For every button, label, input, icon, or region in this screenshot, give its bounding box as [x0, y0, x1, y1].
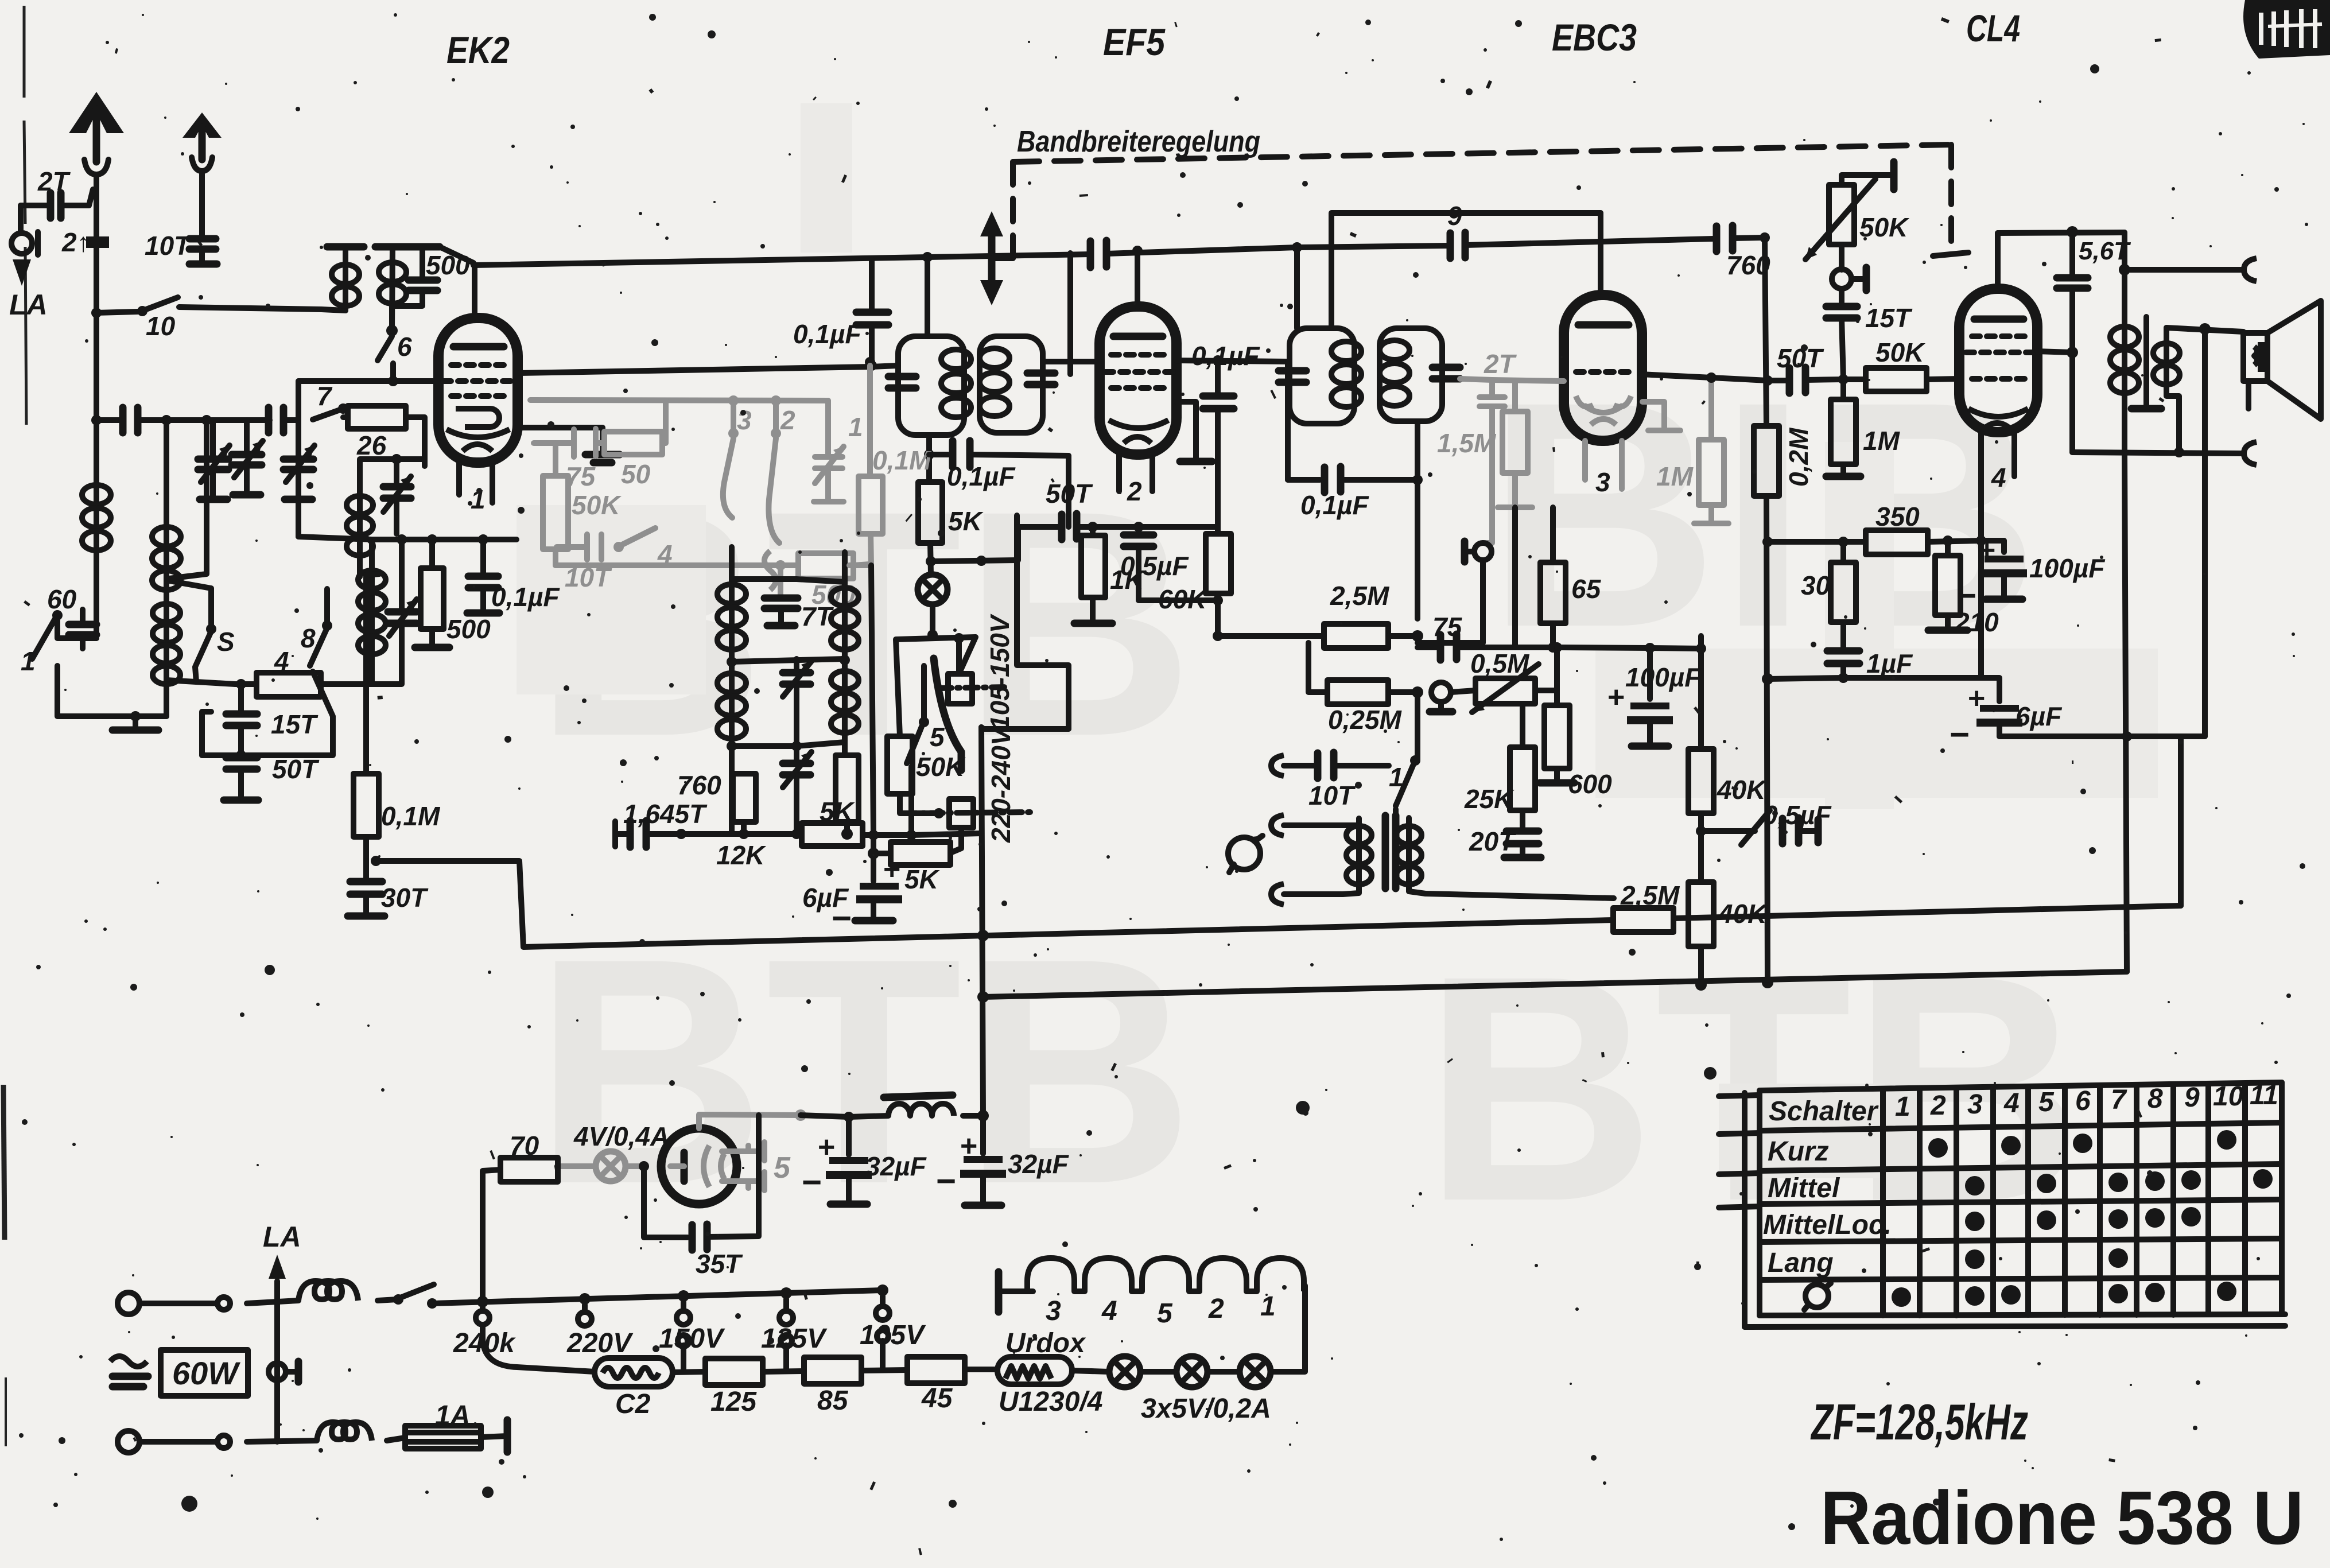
- resistor 70: [483, 1131, 558, 1302]
- svg-text:40K: 40K: [1718, 899, 1768, 929]
- AF wire to 2,5M bottom: [1426, 894, 1614, 898]
- table header scan shading: [1719, 1084, 1885, 1178]
- svg-text:9: 9: [2184, 1082, 2200, 1113]
- svg-text:500: 500: [446, 614, 491, 644]
- riser from bus A to 6uF line: [2178, 736, 2184, 906]
- capacitor 50T (to EBC3 out): [1768, 343, 1849, 393]
- resistor 5K (mains): [868, 842, 950, 894]
- capacitor 0,1uF left: [467, 534, 560, 613]
- svg-text:5: 5: [774, 1151, 791, 1185]
- EF5 plate wire to IF2: [1176, 360, 1290, 362]
- dots Lang: [1965, 1248, 2128, 1269]
- wire AVC row y1129: [1557, 647, 1701, 649]
- electrolytic 6uF (bias): [1843, 678, 2063, 754]
- gray resistor 50K vertical: [543, 443, 622, 565]
- svg-text:2,5M: 2,5M: [1330, 581, 1390, 611]
- svg-text:50T: 50T: [272, 754, 320, 784]
- variable capacitor 1: [198, 420, 230, 499]
- EF5 top lead: [1135, 251, 1140, 306]
- svg-text:60: 60: [47, 584, 77, 614]
- wire 15T/50T node to osc loop: [202, 672, 333, 755]
- mains symbol + 60W box: [110, 1350, 248, 1396]
- svg-text:125: 125: [710, 1387, 757, 1417]
- capacitor 10T to ground: [145, 231, 217, 264]
- svg-text:−: −: [1949, 715, 1969, 754]
- gray switch 3: [723, 401, 752, 518]
- speaker frame return: [2202, 329, 2208, 736]
- AF transformer terminals: [1271, 815, 1359, 905]
- resistor 5K (osc): [802, 797, 863, 846]
- svg-text:8: 8: [2148, 1084, 2163, 1114]
- resistor 350: [1762, 502, 1981, 554]
- svg-text:0,1µF: 0,1µF: [1300, 490, 1369, 520]
- Urdox U1230/4: [997, 1328, 1109, 1417]
- coil L1 antenna: [82, 420, 111, 638]
- dots gramophone row: [1892, 1282, 2236, 1307]
- gray resistor 500: [798, 553, 870, 610]
- svg-text:50K: 50K: [1875, 337, 1925, 367]
- wire coil top to T1: [440, 247, 473, 263]
- svg-text:350: 350: [1875, 502, 1920, 531]
- svg-text:1: 1: [1895, 1092, 1910, 1122]
- IF2 right-top riser to EBC3 anode line: [1331, 213, 1601, 328]
- svg-text:4: 4: [1101, 1296, 1117, 1326]
- svg-text:S: S: [217, 627, 235, 657]
- resistor 40K upper: [1688, 636, 1767, 836]
- svg-text:65: 65: [1571, 574, 1602, 604]
- vertical branch x1865: [1067, 253, 1073, 374]
- svg-text:50K: 50K: [572, 490, 622, 520]
- svg-text:1: 1: [21, 646, 36, 676]
- light scan patches: [517, 103, 2158, 809]
- svg-text:Urdox: Urdox: [1005, 1328, 1086, 1359]
- svg-text:32µF: 32µF: [865, 1151, 927, 1181]
- svg-text:+: +: [883, 853, 900, 886]
- svg-text:500: 500: [426, 250, 470, 280]
- resistor 60K: [1158, 534, 1324, 641]
- bus B: [983, 972, 2127, 997]
- svg-text:−: −: [831, 899, 851, 937]
- wire antenna column down to tuning bus: [94, 313, 99, 420]
- svg-text:15T: 15T: [271, 709, 319, 739]
- resistor 40K lower: [1688, 831, 1768, 991]
- osc mid link: [732, 659, 845, 662]
- bottom mains lead with coil and fuse 1A: [247, 1400, 507, 1452]
- svg-text:7: 7: [2111, 1085, 2127, 1115]
- svg-text:Lang: Lang: [1768, 1248, 1834, 1278]
- svg-text:8: 8: [301, 623, 316, 653]
- EF5 grid wire from IF1: [1043, 359, 1100, 364]
- svg-text:85: 85: [817, 1385, 849, 1416]
- resistor 45: [907, 1357, 997, 1414]
- grid wire EK2: [298, 378, 437, 384]
- selector to 5K: [950, 828, 961, 853]
- EK2 cathode ground: [518, 428, 620, 463]
- electrolytic 6uF: [802, 853, 902, 937]
- gray wire grid row: [530, 400, 828, 401]
- svg-text:5K: 5K: [820, 797, 855, 826]
- svg-text:105-150V: 105-150V: [985, 614, 1015, 730]
- svg-text:220V: 220V: [566, 1328, 634, 1359]
- svg-text:1: 1: [1389, 762, 1404, 792]
- CL4 cathode node: [1976, 535, 1986, 546]
- taps: [453, 1296, 926, 1359]
- svg-text:0,2M: 0,2M: [1784, 427, 1813, 487]
- switch 10: [137, 297, 178, 341]
- output terminal bottom: [2072, 442, 2257, 465]
- ground left block: [104, 711, 166, 730]
- svg-text:Kurz: Kurz: [1768, 1136, 1829, 1167]
- wire CL4 cathode row y942: [1981, 538, 2004, 544]
- filament loop + 35T: [639, 1115, 759, 1279]
- svg-text:25K: 25K: [1464, 784, 1514, 814]
- svg-text:10T: 10T: [1308, 781, 1356, 810]
- capacitor 1,645T: [615, 799, 708, 847]
- bus A (B-): [376, 861, 2181, 947]
- svg-text:1µF: 1µF: [1866, 649, 1913, 678]
- WATERMARKS: [534, 335, 2084, 1268]
- svg-text:4: 4: [1991, 463, 2006, 492]
- electrolytic 32uF (first): [801, 1112, 927, 1204]
- series capacitor 9 on T1: [1447, 201, 1465, 258]
- svg-text:0,1M: 0,1M: [872, 445, 932, 475]
- svg-text:−: −: [1956, 576, 1976, 615]
- series capacitor on T1: [1090, 240, 1106, 267]
- svg-text:30T: 30T: [381, 883, 429, 913]
- gramophone symbol: [1228, 836, 1263, 872]
- variable cap osc C (760): [677, 746, 811, 833]
- svg-text:1M: 1M: [1656, 461, 1694, 491]
- osc coil 4: [831, 659, 859, 755]
- svg-text:1,5M: 1,5M: [1437, 428, 1497, 458]
- svg-text:2T: 2T: [37, 166, 71, 196]
- osc coupling coil below 26: [347, 454, 425, 577]
- resistor 210: [1928, 541, 1999, 637]
- variable capacitor 3: [284, 420, 314, 499]
- svg-text:−: −: [801, 1163, 821, 1201]
- resistor 0,2M: [1754, 426, 1813, 988]
- osc coil 3: [831, 552, 859, 659]
- 6uF bottom wire: [1999, 733, 2205, 739]
- switch 1 (pickup): [1389, 692, 1420, 821]
- second antenna (short): [182, 112, 222, 236]
- rail 220-240V vertical: [981, 727, 983, 1116]
- svg-text:CL4: CL4: [1966, 7, 2020, 49]
- svg-text:1M: 1M: [1863, 426, 1901, 456]
- electrolytic 32uF (second): [935, 1110, 1070, 1205]
- svg-text:1: 1: [848, 412, 863, 442]
- capacitor 20T: [1469, 826, 1541, 857]
- coil L4: [298, 537, 386, 684]
- svg-text:760: 760: [677, 770, 721, 800]
- svg-text:105V: 105V: [860, 1320, 926, 1350]
- heater winding: [999, 1258, 1304, 1329]
- long vertical output return: [2125, 453, 2127, 972]
- svg-text:0,1M: 0,1M: [381, 801, 441, 831]
- capacitor 0,1uF (AVC): [1288, 362, 1418, 520]
- svg-text:10T: 10T: [145, 231, 192, 261]
- svg-text:5K: 5K: [948, 506, 984, 536]
- EF5 bottom leads: [1119, 455, 1152, 491]
- coil A2: [375, 247, 411, 331]
- svg-text:2: 2: [780, 405, 795, 435]
- IF2 secondary bottom lead: [1415, 421, 1420, 480]
- svg-text:60W: 60W: [172, 1355, 240, 1391]
- resistor 500 vertical: [415, 534, 491, 647]
- EK2 bottom leads: [459, 463, 492, 503]
- svg-text:50K: 50K: [916, 752, 966, 782]
- gray wire to 500 resistor: [556, 562, 798, 568]
- resistor 0,25M: [1308, 643, 1423, 735]
- svg-text:2↑: 2↑: [61, 227, 90, 257]
- svg-text:7: 7: [317, 381, 333, 411]
- 240k hook to dropper chain: [483, 1325, 595, 1372]
- capacitor 15T: [226, 684, 319, 755]
- junction dots on bus: [161, 415, 172, 425]
- svg-text:5: 5: [1157, 1298, 1173, 1329]
- IF2 primary top lead to T1: [1294, 247, 1300, 328]
- variable cap osc B: [783, 659, 811, 746]
- gray switch 4 with cap: [557, 528, 673, 592]
- svg-text:50T: 50T: [1777, 343, 1824, 373]
- gramophone input connector: [1418, 541, 1492, 643]
- CL4 bottom leads: [1981, 432, 2014, 481]
- variable resistor 50K (tone): [1805, 162, 1909, 270]
- IF1 primary top lead: [925, 257, 930, 336]
- dots Mittel: [1965, 1169, 2273, 1196]
- EF5 cathode chain: 50T cap: [1018, 456, 1139, 560]
- svg-text:4: 4: [2003, 1088, 2020, 1119]
- plug terminals top: [118, 1293, 230, 1314]
- junction dots on T1: [922, 252, 933, 262]
- wire 5K to x1772 riser: [931, 560, 1017, 561]
- ballast C2: [595, 1358, 705, 1419]
- capacitor 0,5uF (tone): [1701, 800, 1832, 845]
- svg-text:3: 3: [737, 405, 752, 435]
- svg-text:10: 10: [2213, 1081, 2244, 1112]
- osc row top link: [732, 579, 845, 582]
- resistor 600: [1540, 690, 1612, 799]
- svg-text:0,1µF: 0,1µF: [1191, 341, 1260, 371]
- capacitor series in bus 2: [269, 407, 284, 433]
- capacitor 0,5uF: [1120, 527, 1223, 606]
- electrolytic 100uF (output): [1956, 534, 2106, 615]
- dial lamp 4V/0,4A: [557, 1121, 669, 1181]
- osc coil 2: [717, 662, 746, 833]
- svg-text:220-240V: 220-240V: [986, 726, 1016, 843]
- svg-text:3: 3: [1046, 1296, 1061, 1326]
- pickup terminals + 10T cap: [1271, 752, 1389, 810]
- svg-text:+: +: [1607, 681, 1624, 714]
- heater lamps 3x5V/0,2A: [1109, 1286, 1305, 1424]
- LA connector: [9, 205, 48, 321]
- LA branch: [263, 1221, 301, 1442]
- electrolytic 100uF (AVC): [1607, 643, 1702, 746]
- svg-text:2: 2: [1127, 476, 1142, 506]
- capacitor series in bus: [123, 407, 138, 433]
- svg-text:EK2: EK2: [446, 29, 510, 71]
- resistor 1M (CL4 grid leak): [1826, 379, 1901, 476]
- svg-text:MittelLoc.: MittelLoc.: [1763, 1210, 1892, 1240]
- table grid: [1745, 1082, 2285, 1327]
- svg-text:12K: 12K: [716, 840, 766, 870]
- svg-text:4V/0,4A: 4V/0,4A: [573, 1121, 669, 1151]
- output transformer: [2110, 232, 2243, 457]
- rectifier tube VY1: [661, 1128, 791, 1204]
- capacitor 5,6T: [2037, 232, 2131, 452]
- svg-text:60K: 60K: [1158, 584, 1208, 614]
- svg-text:40K: 40K: [1717, 775, 1767, 805]
- choke: [884, 1095, 954, 1116]
- EK2 top cap lead: [472, 265, 477, 318]
- resistor 5K vertical: [918, 482, 984, 574]
- resistor 50K (CL4 grid stopper): [1843, 337, 1959, 391]
- resistor 85: [804, 1357, 907, 1416]
- bandwidth double arrow: [980, 211, 1013, 305]
- svg-text:100µF: 100µF: [1625, 662, 1702, 692]
- capacitor 2T: [1479, 349, 1517, 424]
- svg-text:EF5: EF5: [1103, 21, 1166, 63]
- svg-text:6: 6: [2075, 1086, 2091, 1116]
- svg-text:100µF: 100µF: [2029, 553, 2106, 583]
- resistor 4: [235, 646, 372, 697]
- resistor 125: [705, 1359, 804, 1417]
- selector blade: [934, 658, 961, 770]
- svg-text:50K: 50K: [1859, 212, 1909, 242]
- EBC3 plate wire right: [1640, 374, 1768, 381]
- svg-text:C2: C2: [615, 1389, 651, 1419]
- speaker: [2243, 301, 2321, 419]
- svg-text:15T: 15T: [1865, 303, 1913, 333]
- resistor 30: [1801, 542, 1856, 649]
- antenna symbol: [69, 92, 124, 174]
- EBC3 grid wire gray from IF2: [1460, 379, 1564, 381]
- svg-text:45: 45: [921, 1383, 953, 1414]
- osc coil 1: [717, 547, 746, 662]
- switch 6: [378, 332, 412, 386]
- gray cap 75 + resistor 50 row: [534, 401, 666, 491]
- junction grid/0,1M: [865, 357, 875, 367]
- resistor 25K: [1464, 704, 1535, 829]
- EF5 side lead to 0,5uF node: [1176, 402, 1196, 459]
- variable cap below 26: [383, 459, 411, 534]
- wire antenna down: [94, 174, 99, 313]
- coil A1: [327, 247, 364, 311]
- svg-text:0,5µF: 0,5µF: [1120, 551, 1189, 581]
- selector contact 105-150V: [939, 674, 1008, 704]
- dots Kurz: [1928, 1130, 2236, 1158]
- svg-text:26: 26: [356, 430, 387, 460]
- svg-text:5: 5: [2038, 1087, 2055, 1117]
- resistor 26: [343, 406, 425, 466]
- capacitor 15T: [1826, 289, 1913, 379]
- svg-text:Bandbreiteregelung: Bandbreiteregelung: [1017, 125, 1260, 158]
- svg-text:35T: 35T: [696, 1249, 743, 1279]
- svg-text:150V: 150V: [659, 1324, 725, 1354]
- capacitor 1uF: [1762, 649, 1913, 685]
- svg-text:1,645T: 1,645T: [623, 799, 708, 829]
- AF transformer: [1346, 816, 1426, 894]
- node 2T junction blob: [61, 227, 109, 257]
- wire top rail of osc block y=935/940: [296, 381, 301, 537]
- svg-text:50: 50: [621, 459, 651, 489]
- svg-text:6: 6: [397, 332, 412, 362]
- resistor 50K (mains): [887, 736, 966, 818]
- svg-text:11: 11: [2250, 1080, 2278, 1111]
- svg-text:5: 5: [930, 722, 945, 752]
- output terminal top: [2119, 258, 2257, 281]
- svg-text:2: 2: [1208, 1294, 1224, 1324]
- resistor 1,5M gray: [1437, 381, 1532, 507]
- variable capacitor 2: [232, 420, 263, 495]
- capacitor 500: [392, 247, 470, 331]
- svg-text:0,25M: 0,25M: [1328, 705, 1403, 735]
- capacitor 7T: [764, 560, 834, 631]
- capacitor 760 on T1 end: [1600, 226, 1770, 280]
- svg-text:2: 2: [1930, 1090, 1946, 1121]
- capacitor 0,1uF (osc coupling): [929, 441, 1069, 491]
- paper edge marks: [3, 6, 26, 1446]
- mains top rail: [432, 1290, 883, 1303]
- resistor 0,1M (EK2 osc grid leak): [354, 574, 441, 861]
- plug terminals bottom: [118, 1431, 230, 1453]
- resistor (osc feed) vertical: [836, 755, 859, 833]
- switch 1 and 60 trimmer branch: [21, 584, 104, 716]
- taps to lower rail: [684, 1341, 883, 1372]
- potentiometer 0,5M: [1451, 642, 1562, 712]
- B+ vertical rail: [963, 1113, 983, 1119]
- gray variable cap 1: [814, 401, 863, 502]
- svg-text:32µF: 32µF: [1008, 1149, 1070, 1179]
- rectifier top lead: [699, 1115, 801, 1128]
- svg-text:3: 3: [1595, 467, 1610, 497]
- resistor 1M gray (EBC3 anode load): [1656, 381, 1729, 523]
- switch 5: [169, 581, 235, 682]
- svg-text:1: 1: [1260, 1291, 1276, 1322]
- svg-text:0,1µF: 0,1µF: [793, 319, 862, 349]
- AVC riser down: [1415, 480, 1420, 619]
- resistor 65: [1540, 507, 1602, 653]
- dots MittelLoc: [1965, 1207, 2201, 1231]
- svg-text:−: −: [935, 1162, 956, 1200]
- svg-text:LA: LA: [9, 289, 48, 321]
- svg-text:5K: 5K: [904, 864, 940, 894]
- capacitor 2T series to LA socket: [21, 166, 93, 218]
- resistor 2,5M (AVC): [1218, 581, 1423, 648]
- gray link 2T to connector column: [1483, 424, 1492, 543]
- osc bottom bus: [646, 831, 802, 837]
- coil L3: [153, 420, 235, 684]
- switch 8: [301, 589, 332, 666]
- capacitor 0,1uF (EK2 anode): [793, 259, 888, 371]
- selector contact 220-240V: [904, 799, 1033, 828]
- svg-text:30: 30: [1801, 570, 1831, 600]
- wire switch to antenna coil: [179, 307, 345, 311]
- svg-text:LA: LA: [263, 1221, 301, 1253]
- CL4 top lead: [1995, 233, 2001, 289]
- wire choke left to rectifier loop: [849, 1116, 888, 1117]
- svg-text:ZF=128,5kHz: ZF=128,5kHz: [1810, 1394, 2028, 1450]
- svg-text:0,1µF: 0,1µF: [947, 461, 1016, 491]
- capacitor 0,1uF (EF5 plate decoupling): [1191, 341, 1260, 534]
- IF1 bottom lead: [926, 435, 932, 482]
- EBC3 cathode ground gray: [1642, 402, 1680, 430]
- svg-text:10: 10: [146, 311, 176, 341]
- capacitor 50T to ground: [224, 750, 320, 800]
- resistor 2,5M (in bus A): [1613, 880, 1680, 932]
- top mains lead with coil and switch: [247, 1281, 437, 1309]
- switch 5 (osc): [907, 666, 945, 833]
